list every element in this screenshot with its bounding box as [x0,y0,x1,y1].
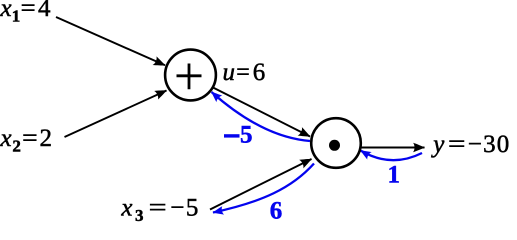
node label x1=4 [0,0,51,25]
edge dot node to y [361,147,425,149]
svg-text:u: u [223,59,236,86]
blue gradient edge dot to x3 [213,164,314,213]
edge x2 to plus node [65,91,167,138]
svg-text:y: y [430,131,445,158]
svg-text:1: 1 [388,162,401,189]
svg-text:x: x [120,194,132,221]
svg-text:5: 5 [240,121,253,148]
node label x3=-5 [120,194,200,225]
svg-text:x: x [0,125,12,152]
blue gradient edge y to dot [361,151,423,161]
svg-text:x: x [0,0,12,22]
svg-text:3: 3 [135,206,144,222]
svg-text:6: 6 [253,59,265,86]
svg-text:=: = [149,194,167,221]
blue gradient edge dot to plus [212,92,311,141]
svg-text:−5: −5 [170,194,200,221]
plus node circle [165,50,216,101]
svg-text:4: 4 [38,0,51,22]
node label u=6 [223,59,266,86]
blue gradient label -5 [224,121,253,148]
edge x1 to plus node [56,17,165,65]
svg-text:=: = [22,125,38,152]
svg-text:=: = [448,131,466,158]
node label x2=2 [0,125,52,155]
svg-text:−30: −30 [468,131,511,158]
node label y=-30 [430,131,510,158]
dot (multiply) symbol [329,140,340,151]
edge x3 to dot node [210,159,312,210]
svg-text:6: 6 [270,197,283,222]
edge plus node to dot node (forward u) [211,87,310,137]
svg-text:=: = [21,0,36,22]
svg-text:1: 1 [12,6,20,25]
svg-text:=: = [236,59,250,86]
svg-text:2: 2 [40,125,53,152]
svg-text:2: 2 [12,136,21,155]
dot node circle [311,118,361,168]
plus sign [177,64,202,90]
